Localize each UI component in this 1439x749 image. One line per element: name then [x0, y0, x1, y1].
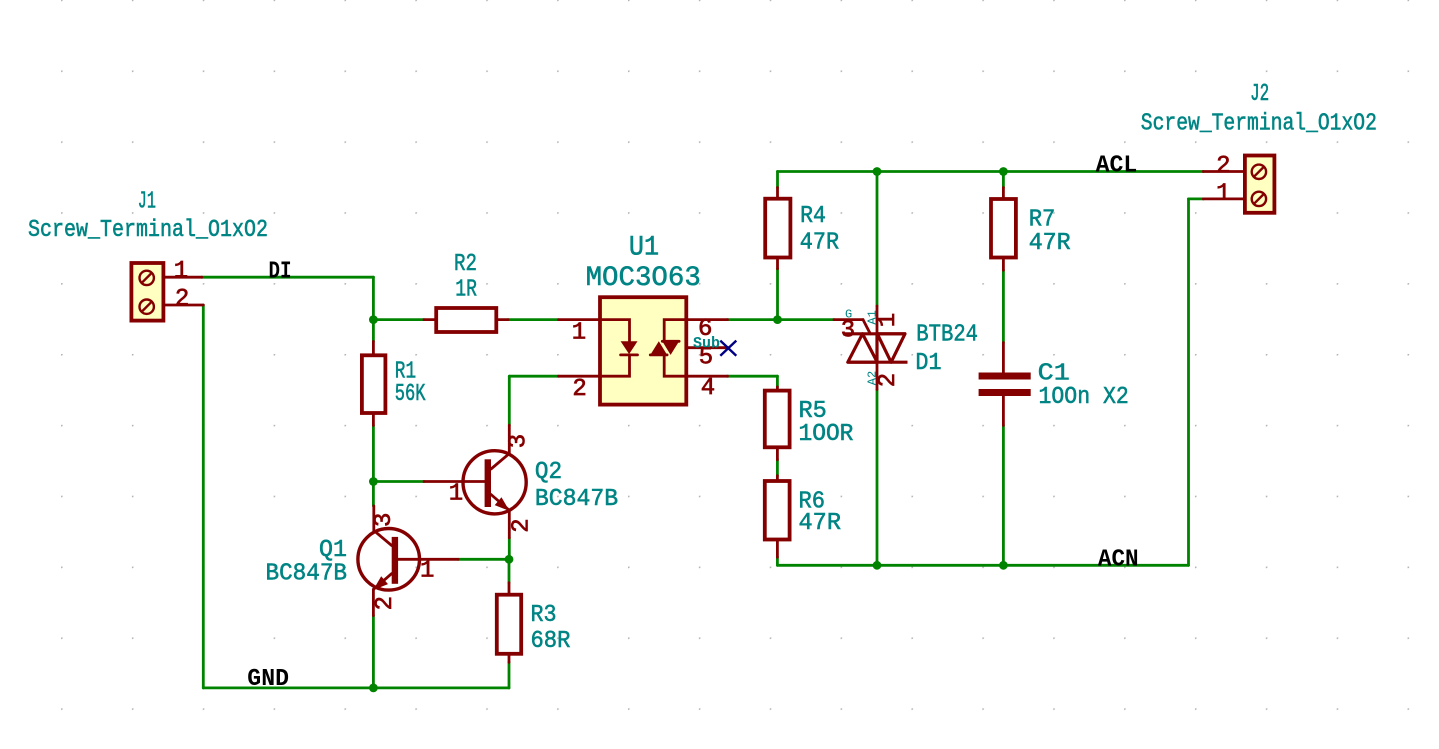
wire GND horizontal [203, 687, 509, 690]
svg-text:BC847B: BC847B [535, 486, 618, 513]
wire pin4 down to R5 [776, 376, 779, 387]
transistor Q1 (mirrored) [358, 506, 420, 616]
svg-text:R3: R3 [531, 602, 557, 629]
svg-text:2: 2 [509, 518, 536, 532]
resistor R3 [497, 595, 521, 654]
wire above R1 [372, 320, 375, 342]
wire R2 to U1 pin1 [508, 318, 558, 321]
pin R6 bottom [776, 540, 779, 558]
wire R6 bottom to ACN [776, 557, 779, 565]
wire Q1 emitter to GND [372, 616, 375, 688]
svg-text:Q2: Q2 [535, 459, 562, 486]
wire Q2 emitter to junction [508, 538, 511, 559]
pin R2 right [496, 318, 508, 321]
svg-text:BC847B: BC847B [266, 561, 348, 588]
pin Q2 base [424, 480, 485, 483]
pin R2 left [424, 318, 436, 321]
wire U1 pin6 to D1 gate [728, 318, 835, 321]
wire C1 to ACN [1002, 426, 1005, 566]
svg-text:G: G [845, 307, 852, 321]
svg-text:R4: R4 [800, 203, 826, 230]
svg-text:47R: 47R [1029, 230, 1071, 257]
pin R7 top [1002, 188, 1005, 200]
wire R3 bottom up [508, 662, 511, 688]
pin C1 top [1002, 343, 1005, 373]
pin J1-1 [163, 276, 201, 279]
svg-text:MOC3O63: MOC3O63 [586, 263, 701, 294]
svg-text:1: 1 [449, 481, 463, 508]
svg-text:ACL: ACL [1096, 153, 1138, 180]
wire J2 pin1 stub [1189, 197, 1204, 200]
connector J1 [131, 263, 163, 321]
pin D1 A2 [876, 362, 879, 389]
svg-text:BTB24: BTB24 [916, 321, 978, 348]
svg-text:1OOR: 1OOR [799, 421, 854, 448]
svg-text:2: 2 [1216, 153, 1230, 180]
U1 internal triac [650, 320, 686, 377]
wire down to Q2 collector [508, 376, 511, 425]
pin C1 bottom [1002, 396, 1005, 426]
pin U1-6 [686, 318, 727, 321]
resistor R7 [991, 199, 1016, 258]
pin R7 bottom [1002, 258, 1005, 271]
pin R6 top [776, 476, 779, 481]
pin U1-5 [686, 346, 728, 349]
no-connect X on U1 pin5 [720, 341, 736, 356]
junction ACL at D1 [873, 167, 882, 176]
svg-text:A2: A2 [866, 371, 880, 385]
junction ACN at C1 [999, 561, 1008, 570]
wire U1 pin2 horizontal [509, 375, 558, 378]
wire U1 pin4 horizontal [728, 375, 778, 378]
wire junction to R3 top [508, 559, 511, 583]
svg-text:U1: U1 [629, 233, 659, 264]
wire between R5 and R6 [776, 460, 779, 476]
svg-text:3: 3 [841, 318, 855, 345]
pin R3 top [508, 583, 511, 595]
svg-text:2: 2 [175, 286, 189, 313]
svg-text:GND: GND [247, 666, 289, 693]
svg-text:47R: 47R [800, 230, 839, 257]
pin J2-2 [1203, 170, 1245, 173]
wire junction to Q1 collector [372, 482, 375, 506]
U1 internal LED [600, 320, 638, 377]
svg-text:DI: DI [269, 258, 292, 285]
svg-text:1R: 1R [455, 276, 477, 303]
svg-text:D1: D1 [915, 350, 941, 377]
pin R1 top [372, 341, 375, 355]
wire junction to Q2 base [373, 480, 424, 483]
pin U1-1 [559, 318, 600, 321]
wire R4 bottom to junction [776, 269, 779, 320]
capacitor C1 [979, 373, 1031, 397]
pin R4 bottom [776, 258, 779, 269]
svg-text:1: 1 [1216, 181, 1230, 208]
svg-text:1OOn X2: 1OOn X2 [1039, 384, 1129, 411]
svg-text:3: 3 [371, 513, 398, 527]
wire junction to R2 [373, 318, 424, 321]
svg-text:3: 3 [506, 434, 533, 448]
wire ACN horizontal [777, 564, 1188, 567]
connector J2 [1245, 156, 1275, 213]
pin U1-4 [686, 375, 727, 378]
wire DI down to junction [372, 277, 375, 319]
wire ACL horizontal [778, 170, 1204, 173]
svg-text:2: 2 [372, 596, 399, 610]
triac D1 [834, 320, 908, 363]
svg-text:47R: 47R [799, 510, 842, 537]
wire ACL corner to R4 [776, 172, 779, 188]
pin J1-2 [163, 304, 203, 307]
pin R3 bottom [508, 654, 511, 663]
wire D1 A1 vertical [876, 172, 879, 307]
svg-text:J2: J2 [1250, 81, 1269, 108]
junction ACL at R7 [999, 167, 1008, 176]
svg-text:1: 1 [174, 258, 188, 285]
wire D1 A2 to ACN [876, 389, 879, 565]
pin R5 top [776, 387, 779, 391]
resistor R6 [765, 481, 790, 540]
svg-text:ACN: ACN [1098, 547, 1139, 574]
pin R4 top [776, 188, 779, 199]
junction ACN at D1 [873, 561, 882, 570]
junction R1/Q1/Q2-base [369, 477, 378, 486]
transistor Q2 [463, 425, 526, 538]
svg-text:4: 4 [701, 375, 715, 402]
resistor R4 [765, 199, 790, 258]
svg-text:1: 1 [572, 320, 586, 347]
wire ACL to R7 [1002, 172, 1005, 188]
resistor R1 [362, 355, 386, 413]
svg-text:2: 2 [572, 376, 586, 403]
pin D1 A1 [876, 306, 879, 334]
pin Q1 base [398, 558, 458, 561]
junction DI/R1/R2 [369, 315, 378, 324]
svg-text:56K: 56K [395, 381, 426, 408]
pin J2-1 [1203, 197, 1245, 200]
svg-text:68R: 68R [531, 628, 571, 655]
svg-text:A1: A1 [866, 310, 880, 324]
wire J1 pin2 vertical [202, 305, 205, 688]
junction GND at Q1 emitter [369, 684, 378, 693]
wire J2 pin1 vertical [1187, 199, 1190, 565]
pin R1 bottom [372, 413, 375, 426]
opto-coupler U1 body [600, 297, 686, 404]
svg-text:Screw_Terminal_O1xO2: Screw_Terminal_O1xO2 [1141, 110, 1377, 137]
svg-text:J1: J1 [138, 188, 156, 215]
resistor R5 [765, 391, 790, 448]
svg-text:Screw_Terminal_O1xO2: Screw_Terminal_O1xO2 [28, 217, 268, 244]
junction Q1-base/Q2-emitter/R3 [505, 555, 514, 564]
svg-text:R2: R2 [454, 251, 477, 278]
svg-text:5: 5 [699, 345, 713, 372]
wire R7 to C1 [1002, 270, 1005, 342]
pin U1-2 [559, 375, 600, 378]
resistor R2 [436, 308, 496, 332]
pin R5 bottom [776, 447, 779, 459]
svg-text:1: 1 [420, 557, 434, 584]
wire Q1 base to junction [458, 558, 509, 561]
wire DI horizontal [202, 276, 374, 279]
wire R1 bottom to junction [372, 426, 375, 482]
junction R4/pin6/gate [773, 315, 782, 324]
